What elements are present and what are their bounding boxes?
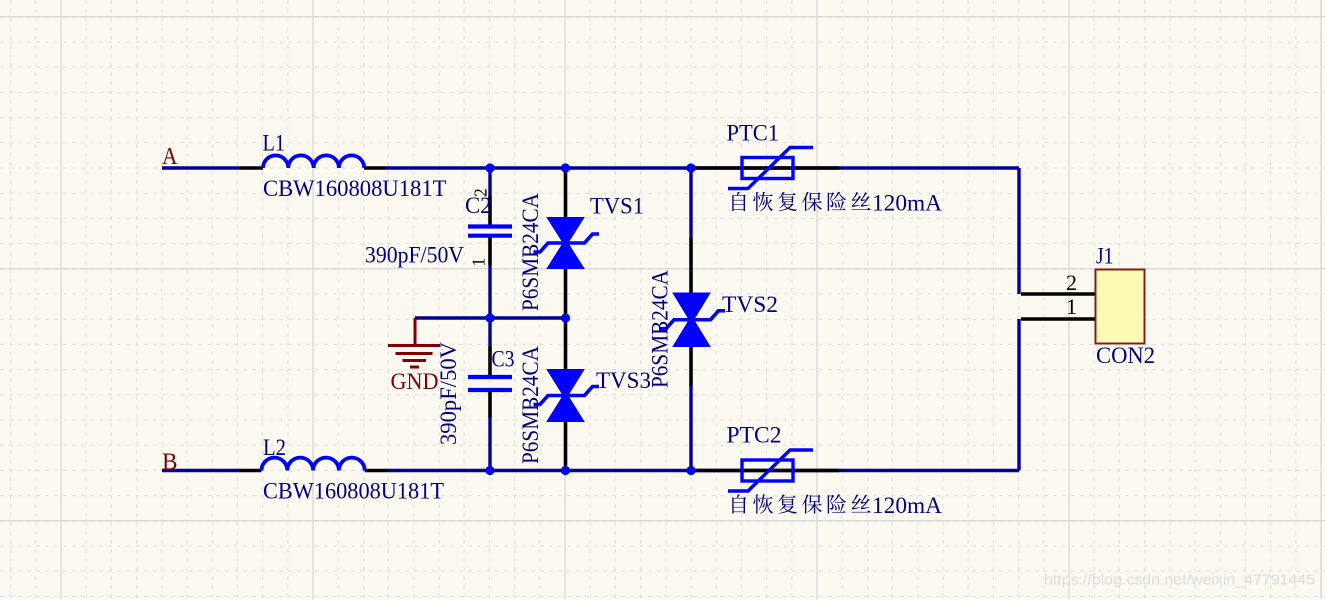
svg-text:2: 2: [1066, 270, 1077, 295]
svg-text:P6SMB24CA: P6SMB24CA: [518, 193, 543, 311]
wire C-column vertical: [488, 168, 491, 471]
tvs diode TVS3: [534, 318, 600, 471]
svg-text:1: 1: [469, 258, 489, 267]
label PTC1 comment 自恢复保险丝120mA: [732, 191, 942, 216]
connector J1 pins: [1021, 294, 1096, 319]
tvs diode TVS1: [534, 168, 600, 318]
label PTC2 comment 自恢复保险丝120mA: [732, 493, 942, 518]
svg-text:120mA: 120mA: [872, 191, 942, 216]
svg-text:C3: C3: [492, 347, 515, 372]
svg-text:PTC1: PTC1: [727, 121, 780, 146]
svg-text:TVS3: TVS3: [596, 368, 651, 393]
svg-text:120mA: 120mA: [872, 493, 942, 518]
inductor L1: [240, 155, 386, 168]
svg-text:2: 2: [471, 188, 491, 197]
wire GND net: [415, 316, 566, 319]
svg-text:J1: J1: [1096, 244, 1114, 269]
junction dots: [485, 163, 695, 475]
svg-text:TVS2: TVS2: [722, 292, 778, 317]
connector J1 body: [1096, 270, 1145, 344]
svg-text:TVS1: TVS1: [590, 194, 644, 219]
svg-text:CBW160808U181T: CBW160808U181T: [263, 479, 444, 504]
tvs diode TVS2: [660, 168, 726, 471]
svg-text:A: A: [162, 144, 178, 170]
svg-text:P6SMB24CA: P6SMB24CA: [518, 346, 543, 464]
svg-text:L1: L1: [263, 131, 286, 156]
wire net B horizontal: [162, 319, 1019, 471]
wire net A horizontal: [162, 168, 1019, 294]
ptc fuse PTC2: [695, 450, 839, 491]
ptc fuse PTC1: [695, 148, 839, 189]
svg-text:390pF/50V: 390pF/50V: [436, 342, 461, 445]
capacitor C2: [468, 196, 512, 265]
svg-text:https://blog.csdn.net/weixin_4: https://blog.csdn.net/weixin_47791445: [1044, 573, 1315, 589]
svg-text:P6SMB24CA: P6SMB24CA: [648, 270, 673, 388]
svg-text:CON2: CON2: [1096, 343, 1155, 368]
svg-text:CBW160808U181T: CBW160808U181T: [263, 176, 447, 201]
ground GND power port: [388, 318, 440, 367]
svg-text:1: 1: [1066, 294, 1077, 319]
svg-text:GND: GND: [391, 369, 439, 394]
svg-text:B: B: [162, 450, 178, 476]
inductor L2: [239, 458, 388, 471]
capacitor C3: [468, 346, 512, 418]
svg-text:390pF/50V: 390pF/50V: [365, 243, 464, 268]
svg-text:PTC2: PTC2: [727, 423, 782, 448]
svg-text:L2: L2: [263, 435, 286, 460]
